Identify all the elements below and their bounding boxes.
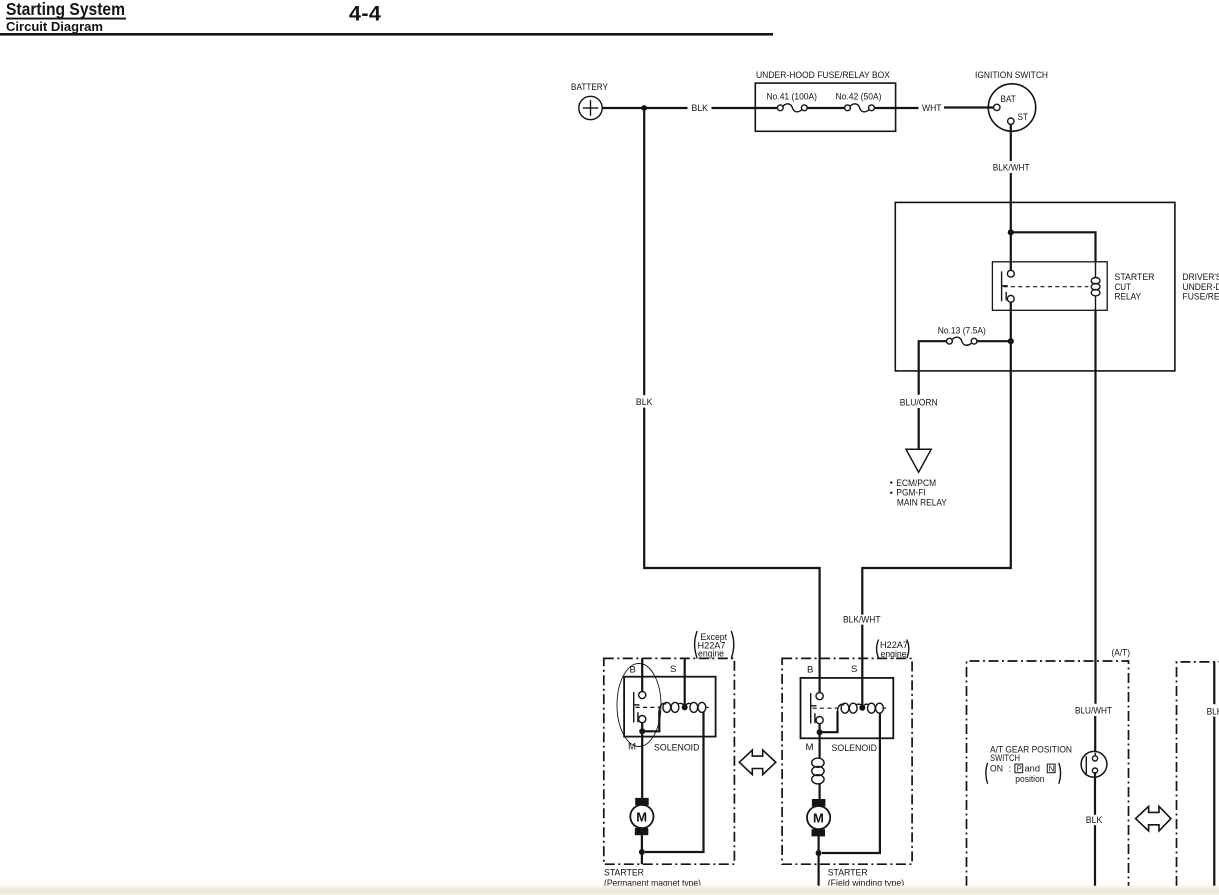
- wire into fuse No.41: [755, 107, 777, 109]
- node left coil junction: [682, 704, 688, 710]
- field winding: [812, 758, 824, 784]
- fuse No.41 (100A): [767, 91, 818, 111]
- wire M/T lower segment: [1213, 717, 1215, 887]
- svg-text:S: S: [851, 664, 857, 675]
- svg-text:BLK/WHT: BLK/WHT: [1207, 706, 1219, 717]
- fuse No.13: [947, 337, 977, 345]
- M/T dash-dot box (clipped at right edge): [1177, 662, 1219, 886]
- svg-text:S: S: [670, 664, 676, 675]
- node left solenoid M junction: [639, 728, 645, 734]
- starter (permanent magnet type) dash-dot box: [604, 658, 735, 864]
- svg-text:M: M: [628, 741, 636, 752]
- wire BLU/WHT to switch: [1094, 716, 1096, 754]
- node battery junction: [641, 105, 647, 111]
- wire BLK vertical lower and across to B terminal: [644, 408, 819, 693]
- svg-text:M: M: [813, 810, 824, 825]
- node left starter bottom junction: [639, 849, 645, 855]
- wire box to WHT label: [896, 107, 919, 109]
- svg-text:4-4: 4-4: [349, 2, 381, 26]
- wire switch to BLK label: [1094, 772, 1096, 815]
- svg-text:FUSE/RELAY BOX: FUSE/RELAY BOX: [1183, 292, 1219, 303]
- svg-text:BLK/WHT: BLK/WHT: [993, 162, 1030, 173]
- svg-text:BLK: BLK: [692, 103, 709, 114]
- svg-text::: :: [1009, 764, 1012, 775]
- right solenoid box: [801, 678, 894, 738]
- terminal BAT: [994, 104, 1000, 110]
- wire motor to bottom node: [641, 835, 643, 864]
- wire M node to pull-in coil (right): [820, 711, 838, 732]
- wire B terminal into solenoid: [641, 658, 643, 691]
- bottom window band: [0, 886, 1219, 895]
- right solenoid dashed action line: [813, 707, 838, 709]
- label STARTER (Permanent magnet type): [604, 868, 701, 889]
- right hold-in winding: [863, 703, 883, 713]
- wire field winding to motor: [818, 783, 820, 800]
- wire BLK/WHT into driver's box: [1010, 173, 1012, 232]
- wire relay coil down to A/T gear position switch: [1094, 310, 1096, 704]
- svg-text:P: P: [1017, 764, 1022, 773]
- title underline: [6, 18, 126, 20]
- relay coil: [1091, 262, 1100, 310]
- wire fuse No.13 right segment: [977, 340, 1011, 342]
- node relay top junction: [1008, 229, 1014, 235]
- wire BLK to page bottom: [1094, 825, 1096, 886]
- double arrow between starter types: [739, 750, 776, 775]
- wire fuse No.13 left segment: [919, 341, 947, 395]
- wire ST terminal down: [1010, 124, 1012, 161]
- node right starter bottom junction: [816, 850, 822, 856]
- wire between fuses: [807, 107, 844, 109]
- left solenoid box: [624, 677, 716, 737]
- svg-text:UNDER-HOOD FUSE/RELAY BOX: UNDER-HOOD FUSE/RELAY BOX: [756, 70, 891, 81]
- node fuse 13 junction: [1008, 338, 1014, 344]
- double arrow A/T to M/T: [1136, 806, 1171, 831]
- wire M/T upper segment: [1213, 662, 1215, 704]
- svg-text:Circuit Diagram: Circuit Diagram: [6, 19, 103, 34]
- wire BLK/WHT from fuse junction down: [862, 341, 1011, 614]
- svg-text:(A/T): (A/T): [1112, 647, 1131, 658]
- svg-text:M: M: [806, 742, 814, 753]
- left solenoid trailing dash: [705, 706, 708, 708]
- svg-text:RELAY: RELAY: [1115, 292, 1142, 303]
- wire fuse No.42 to box edge: [874, 107, 895, 109]
- svg-text:M: M: [636, 809, 647, 824]
- label (Except H22A7 engine): [695, 631, 734, 660]
- label DRIVER'S UNDER-DASH FUSE/RELAY BOX: [1183, 272, 1219, 302]
- fuse No.42 (50A): [836, 91, 882, 111]
- wire M node to pull-in coil: [642, 711, 659, 732]
- svg-text:B: B: [630, 664, 636, 675]
- wire relay contact down to fuse junction: [1010, 302, 1012, 341]
- left hold-in winding: [685, 702, 706, 712]
- A/T dash-dot box: [967, 661, 1129, 886]
- annotation ellipse around contact: [617, 664, 661, 747]
- wire BLK vertical upper (battery junction down): [643, 108, 645, 395]
- svg-text:No.42 (50A): No.42 (50A): [836, 91, 882, 102]
- label STARTER (Field winding type): [828, 868, 905, 889]
- relay dashed action line: [1003, 286, 1088, 288]
- node right coil junction: [859, 705, 865, 711]
- ignition switch circle: [988, 84, 1035, 131]
- header rule: [0, 33, 773, 36]
- relay contact terminals: [1007, 270, 1014, 302]
- left solenoid contact terminals: [639, 691, 646, 722]
- wire WHT label to BAT terminal: [944, 106, 994, 108]
- node right solenoid M junction: [817, 729, 823, 735]
- wire junction down to relay contact: [1010, 232, 1012, 270]
- relay armature: [1002, 271, 1008, 301]
- left pull-in winding: [659, 702, 684, 712]
- wire hold-in winding return (right): [822, 713, 880, 853]
- svg-text:BLK: BLK: [636, 397, 653, 408]
- right starter motor: [807, 799, 830, 836]
- svg-text:ON: ON: [990, 764, 1003, 775]
- svg-text:BLK: BLK: [1086, 815, 1103, 826]
- svg-text:BAT: BAT: [1001, 94, 1016, 105]
- label STARTER CUT RELAY: [1115, 272, 1155, 302]
- label A/T GEAR POSITION SWITCH (ON : P and N position): [986, 745, 1072, 785]
- svg-text:position: position: [1015, 774, 1044, 785]
- wire M terminal to field winding: [818, 732, 820, 758]
- svg-text:No.13 (7.5A): No.13 (7.5A): [938, 325, 986, 336]
- wire S terminal into solenoid: [684, 658, 686, 707]
- svg-text:SOLENOID: SOLENOID: [654, 742, 700, 753]
- starter cut relay box: [992, 262, 1107, 311]
- wire BLK/WHT lower into S terminal: [861, 625, 863, 708]
- left starter motor: [630, 798, 653, 835]
- terminal ST: [1008, 118, 1014, 124]
- wire battery to junction: [602, 107, 644, 109]
- svg-text:MAIN RELAY: MAIN RELAY: [897, 497, 948, 508]
- wire hold-in winding return: [645, 712, 704, 852]
- svg-text:ST: ST: [1018, 112, 1029, 123]
- svg-text:BLU/WHT: BLU/WHT: [1075, 705, 1112, 716]
- wire motor to bottom node (right): [817, 836, 819, 886]
- arrow to ECM/PCM PGM-FI main relay: [906, 449, 931, 472]
- svg-text:N: N: [1049, 764, 1055, 773]
- wire junction to relay coil branch: [1011, 232, 1096, 262]
- right solenoid trailing dash: [883, 707, 886, 709]
- wire BLU/ORN to arrow: [918, 408, 920, 449]
- label (H22A7 engine): [877, 640, 909, 660]
- svg-text:IGNITION SWITCH: IGNITION SWITCH: [975, 70, 1048, 81]
- under-hood fuse/relay box: [755, 83, 895, 131]
- left solenoid dashed action line: [636, 706, 661, 708]
- svg-text:BATTERY: BATTERY: [571, 82, 609, 93]
- svg-text:SWITCH: SWITCH: [990, 753, 1020, 764]
- svg-text:SOLENOID: SOLENOID: [832, 743, 878, 754]
- svg-text:WHT: WHT: [922, 103, 942, 114]
- svg-text:No.41 (100A): No.41 (100A): [767, 91, 818, 102]
- right solenoid armature: [811, 693, 817, 724]
- right solenoid contact terminals: [816, 693, 823, 724]
- wire junction to BLK label: [644, 107, 687, 109]
- A/T gear position switch: [1081, 751, 1107, 777]
- left solenoid armature: [634, 692, 640, 723]
- label ECM/PCM PGM-FI MAIN RELAY: [890, 478, 947, 508]
- svg-text:BLK/WHT: BLK/WHT: [843, 614, 881, 625]
- svg-text:BLU/ORN: BLU/ORN: [900, 397, 938, 408]
- battery symbol: [579, 96, 602, 119]
- wire BLK label to fuse box: [712, 107, 757, 109]
- wire contact to M node (right): [818, 723, 820, 732]
- svg-text:B: B: [807, 664, 813, 675]
- driver's under-dash fuse/relay box: [895, 202, 1175, 371]
- svg-text:Starting System: Starting System: [6, 0, 125, 19]
- right pull-in winding: [837, 703, 862, 713]
- wire contact to M node: [641, 722, 643, 731]
- wire M terminal down to motor: [641, 731, 643, 798]
- starter (field winding type) dash-dot box: [782, 658, 912, 864]
